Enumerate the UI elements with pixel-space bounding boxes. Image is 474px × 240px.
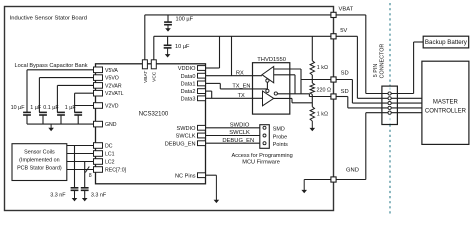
svg-text:TX: TX <box>238 93 245 99</box>
svg-text:LC1: LC1 <box>105 152 115 158</box>
svg-text:TX_EN: TX_EN <box>232 83 250 89</box>
svg-text:SWDIO: SWDIO <box>177 126 197 132</box>
svg-text:3.3 nF: 3.3 nF <box>91 193 107 199</box>
svg-text:VBAT: VBAT <box>339 7 354 13</box>
svg-text:PCB Stator Board): PCB Stator Board) <box>17 166 62 172</box>
svg-text:V2VD: V2VD <box>105 104 119 110</box>
svg-text:Data1: Data1 <box>181 82 196 88</box>
svg-text:Probe: Probe <box>273 134 287 140</box>
svg-text:100 µF: 100 µF <box>176 16 194 22</box>
svg-text:V2VATL: V2VATL <box>105 91 124 97</box>
svg-text:RX: RX <box>236 71 244 77</box>
svg-text:Sensor Coils: Sensor Coils <box>24 150 55 156</box>
svg-text:Points: Points <box>273 142 288 148</box>
svg-text:Data2: Data2 <box>181 89 196 95</box>
svg-text:8: 8 <box>89 173 92 179</box>
svg-text:5V: 5V <box>340 28 347 34</box>
svg-text:VBAT: VBAT <box>143 71 149 83</box>
svg-text:THVD1550: THVD1550 <box>257 57 286 63</box>
svg-text:Backup Battery: Backup Battery <box>425 39 468 46</box>
svg-text:SWCLK: SWCLK <box>176 134 196 140</box>
svg-text:V2VAR: V2VAR <box>105 83 122 89</box>
svg-text:220 Ω: 220 Ω <box>317 88 332 94</box>
svg-text:1 µF: 1 µF <box>65 105 77 111</box>
svg-text:SD: SD <box>341 71 349 77</box>
svg-text:GND: GND <box>105 122 117 128</box>
svg-text:(Implemented on: (Implemented on <box>19 158 59 164</box>
svg-text:5 PIN: 5 PIN <box>373 64 379 78</box>
svg-text:SMD: SMD <box>273 127 285 133</box>
svg-text:MCU Firmware: MCU Firmware <box>242 160 280 166</box>
svg-text:1 µF: 1 µF <box>30 105 42 111</box>
svg-text:Inductive Sensor Stator Board: Inductive Sensor Stator Board <box>10 15 87 21</box>
svg-text:V5VA: V5VA <box>105 68 118 74</box>
svg-text:10 µF: 10 µF <box>175 44 190 50</box>
svg-text:3.3 nF: 3.3 nF <box>50 193 66 199</box>
svg-text:0.1 µF: 0.1 µF <box>43 105 59 111</box>
svg-text:Access for Programming: Access for Programming <box>231 153 292 159</box>
svg-text:DC: DC <box>105 144 113 150</box>
svg-text:NC Pins: NC Pins <box>175 173 196 179</box>
svg-text:SWCLK: SWCLK <box>229 130 250 136</box>
svg-text:V5VO: V5VO <box>105 76 119 82</box>
svg-text:NCS32100: NCS32100 <box>139 112 169 118</box>
svg-text:10 µF: 10 µF <box>11 105 26 111</box>
svg-text:REC[7:0]: REC[7:0] <box>105 168 127 174</box>
svg-text:DEBUG_EN: DEBUG_EN <box>222 138 254 144</box>
svg-text:SWDIO: SWDIO <box>230 122 250 128</box>
svg-text:GND: GND <box>346 167 359 173</box>
svg-text:Local Bypass Capacitor Bank: Local Bypass Capacitor Bank <box>15 63 88 69</box>
svg-text:1 kΩ: 1 kΩ <box>317 112 328 118</box>
svg-text:DEBUG_EN: DEBUG_EN <box>165 141 196 147</box>
svg-text:Data0: Data0 <box>181 74 196 80</box>
svg-text:VCC: VCC <box>152 71 158 82</box>
svg-text:CONNECTOR: CONNECTOR <box>379 44 385 79</box>
svg-text:VDDIO: VDDIO <box>178 66 196 72</box>
svg-text:SD: SD <box>341 89 349 95</box>
svg-text:MASTER: MASTER <box>433 99 459 105</box>
svg-text:LC2: LC2 <box>105 160 115 166</box>
svg-text:1 kΩ: 1 kΩ <box>317 65 328 71</box>
svg-text:CONTROLLER: CONTROLLER <box>425 108 467 114</box>
svg-text:Data3: Data3 <box>181 96 196 102</box>
